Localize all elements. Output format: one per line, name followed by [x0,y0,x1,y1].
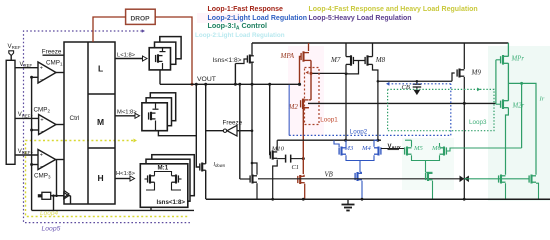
wire DROP to VOUT sense [155,17,192,84]
wire CMP2 output [56,124,64,126]
Loop3 arrow [477,88,480,92]
svg-text:Loop5: Loop5 [42,226,61,233]
VB junction marker [460,176,465,183]
svg-text:MPA: MPA [280,52,295,60]
bottom-left rail [32,209,194,211]
mirror gate tie [353,60,365,62]
svg-text:Loop-1:Fast Response: Loop-1:Fast Response [208,6,284,13]
wire MPA gate to VOUT [300,57,302,85]
wire M9 source to rail [463,43,465,69]
wire M8 drain to M9 gate [373,64,378,81]
wire buffer to H block [69,195,71,197]
svg-text:+: + [40,118,43,124]
svg-text:M3: M3 [344,145,354,152]
svg-text:L<1:8>: L<1:8> [117,53,136,59]
svg-text:−: − [40,164,43,170]
wire CMP3 output branch down [56,160,58,196]
capacitor C1 [277,158,285,160]
green tail transistor [425,173,427,180]
green mirror NMOS 2 [528,175,530,182]
transistor M2 [300,100,302,107]
transistor M3 [338,147,340,154]
M5 M6 drain stubs [411,140,413,147]
Loop4 dashed boundary [26,141,189,217]
wire M10 gate feed [269,84,271,155]
transistor MPr [500,56,502,63]
diode tie of mirror NMOS [252,163,257,175]
H<1:8> output wire [115,178,130,180]
feedback vertical wire [31,77,33,210]
green pair drains and tail [412,155,440,160]
svg-text:M4: M4 [361,145,371,152]
M<1:8> output wire [115,115,135,117]
sense mirror transistor top [246,55,248,62]
VB bias wire [258,178,464,180]
svg-text:Loop-2:Light Load Regulation: Loop-2:Light Load Regulation [195,32,285,39]
transistor M2r [500,101,502,108]
wire M8 source to rail [372,43,374,57]
MPr M2r gate tie [495,60,497,104]
wire inverter output [206,130,224,132]
supply corner to MPr [507,43,509,57]
svg-text:+: + [40,66,43,72]
svg-text:M5: M5 [413,145,423,152]
svg-text:VB: VB [325,172,333,179]
transistor M9 [456,69,458,76]
wire inverter input [237,130,252,132]
tint halo around right green branch [488,46,550,201]
Loop3 boundary [388,89,494,130]
M6 gate to right branch [446,148,521,151]
wire VREF- tap to CMP3 [15,154,38,156]
svg-text:M<1:8>: M<1:8> [117,110,137,116]
DROP detector box [126,9,156,24]
wire Freeze into Ctrl [43,54,65,56]
VAUX underline [388,149,400,151]
svg-text:Loop-5:Heavy Load Regulation: Loop-5:Heavy Load Regulation [309,15,412,22]
svg-text:M8: M8 [375,56,386,64]
L sub-block [88,93,115,95]
wire delay to buffer [51,195,64,197]
comparator CMP2 [39,115,56,135]
wire VREF tap to CMP1 [15,67,38,69]
svg-text:Loop3: Loop3 [469,119,487,126]
svg-text:−: − [40,77,43,83]
ground symbol [347,199,349,204]
gate drive wire y140 [277,139,381,141]
wire M9 drain down [463,77,465,199]
wire VOUT to sense column [234,64,236,85]
transistor M10 [269,152,271,159]
wire to CMP1 inverting input [32,76,38,78]
wire bank to bottom rail [150,207,152,210]
svg-text:+: + [40,153,43,159]
svg-text:M9: M9 [471,69,482,77]
wire VREF symbol to divider [10,56,12,61]
ground rail [206,198,550,200]
svg-text:DROP: DROP [131,15,151,22]
resistor divider string [6,60,15,164]
wire first stage out to M7 [311,72,348,74]
controller Ctrl block [64,42,115,204]
comparator CMP3 [38,150,56,170]
M3 gate feed [334,140,339,147]
wire CMP3 output [56,159,64,161]
buffer triangle [64,192,69,199]
svg-text:VOUT: VOUT [197,76,216,83]
svg-text:M:1: M:1 [158,165,169,172]
green mirror NMOS 1 [498,175,500,182]
wire M2 drain down [303,108,309,174]
svg-text:CB: CB [402,84,410,91]
Loop5 dashed boundary [24,31,190,223]
M3 M4 drains up [345,140,347,147]
svg-text:MPr: MPr [511,56,525,63]
VAUX wire [381,148,404,150]
transistor Idown [199,163,201,170]
capacitor CB [416,81,418,84]
sense pair transistors [147,175,149,182]
power transistor bank L (stacked) [160,37,181,59]
sense transistor bank stacked boxes [152,155,195,196]
M7 diode connection [345,64,347,140]
wire VOUT to mid column A [205,84,207,162]
svg-text:Idown: Idown [214,162,226,168]
transistor MPA [300,53,302,60]
green gate tie bottom [464,178,529,180]
replica feedback vertical [521,83,523,148]
second stage output rail [308,102,496,104]
transistor M8 [364,57,366,64]
wire M7 source to rail [345,43,347,57]
wire M2r drain down [506,108,509,175]
reference source symbol [9,51,14,56]
svg-text:M2r: M2r [512,103,525,110]
wire Idown gate [196,136,200,167]
svg-text:C1: C1 [292,164,299,171]
wire MPA source to rail [308,43,310,51]
transistor M7 [352,57,354,64]
svg-text:Loop2: Loop2 [350,128,368,135]
svg-text:Loop-4:Fast Response and Heav: Loop-4:Fast Response and Heavy Load Regu… [309,6,478,13]
L<1:8> output wire [115,58,143,60]
svg-text:Ctrl: Ctrl [70,115,80,122]
wire L bank to VOUT [159,70,161,84]
svg-text:VREF: VREF [20,62,33,68]
supply rail top [252,42,508,44]
wire M bank to VOUT riser [158,84,196,135]
delay element D [42,192,51,199]
Loop1 dashed boundary [305,68,320,125]
wire sense down through VOUT [251,63,253,177]
svg-text:M7: M7 [330,56,341,64]
wire MPr drain to M2r [507,63,509,101]
comparator CMP1 [38,62,56,83]
M5 gate feed [403,148,406,150]
svg-text:Isns<1:8>: Isns<1:8> [157,199,186,206]
M sub-block [88,147,115,149]
power transistor bank M (stacked) [150,93,175,121]
clock input marker [64,191,69,198]
svg-text:Freeze: Freeze [42,49,62,56]
transistor M6 [445,147,447,154]
diff pair tail join [346,155,374,160]
wire delay tap down [53,196,55,211]
transistor M2 lower (brown) [297,176,299,183]
svg-text:H<1:8>: H<1:8> [116,171,136,177]
Loop2 boundary [288,85,290,136]
transistor M4 [380,147,382,154]
tint halo green diff pair [402,138,454,190]
replica mid node to Ir [508,83,536,174]
tint halo around Loop1 area [288,46,324,136]
svg-text:M: M [97,117,104,127]
wire MPA drain chain [310,60,312,100]
wire Isns label to sense gate [235,59,247,64]
svg-text:Ir: Ir [539,96,545,103]
lower mirror NMOS mid [249,175,251,182]
wire CMP1 output [56,72,64,74]
VOUT node rail [160,83,300,85]
svg-text:Loop1: Loop1 [320,117,338,124]
wire to CMP2 inverting input [32,129,39,131]
tail transistor blue [354,173,356,180]
svg-text:H: H [98,173,104,183]
wire mid column B [239,84,241,179]
transistor M5 [404,147,406,154]
wire to CMP3 inverting input [32,164,38,166]
svg-text:L: L [98,64,103,74]
wire DROP to Ctrl [93,17,126,42]
tint halo legend ghost [197,13,241,23]
wire VREF+ tap to CMP2 [15,117,39,119]
wire sense to top rail [251,43,253,56]
svg-text:−: − [40,129,43,135]
